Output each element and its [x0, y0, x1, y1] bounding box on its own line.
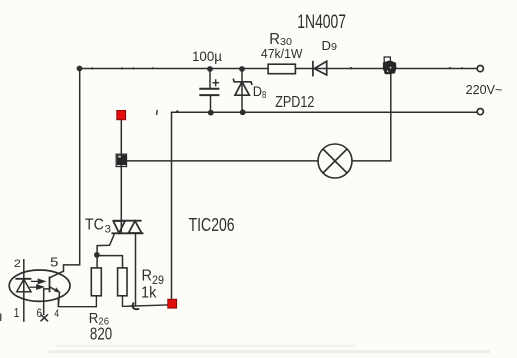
- svg-text:1: 1: [14, 305, 20, 320]
- svg-text:TC: TC: [85, 216, 104, 233]
- svg-text:47k/1W: 47k/1W: [261, 46, 303, 61]
- svg-text:220V~: 220V~: [466, 82, 503, 97]
- svg-text:D: D: [322, 38, 332, 53]
- svg-text:1k: 1k: [141, 285, 157, 302]
- svg-text:4: 4: [54, 308, 59, 320]
- svg-text:100µ: 100µ: [192, 48, 222, 64]
- svg-text:820: 820: [90, 324, 113, 344]
- svg-text:D: D: [253, 83, 262, 99]
- svg-text:1N4007: 1N4007: [297, 12, 346, 33]
- svg-text:ZPD12: ZPD12: [275, 94, 314, 111]
- svg-text:3: 3: [105, 224, 112, 236]
- svg-text:9: 9: [331, 42, 337, 53]
- svg-text:8: 8: [262, 90, 267, 101]
- svg-text:5: 5: [50, 254, 58, 269]
- svg-text:R: R: [142, 268, 153, 285]
- svg-text:TIC206: TIC206: [189, 215, 235, 235]
- svg-text:6: 6: [37, 306, 43, 320]
- svg-text:2: 2: [14, 258, 21, 270]
